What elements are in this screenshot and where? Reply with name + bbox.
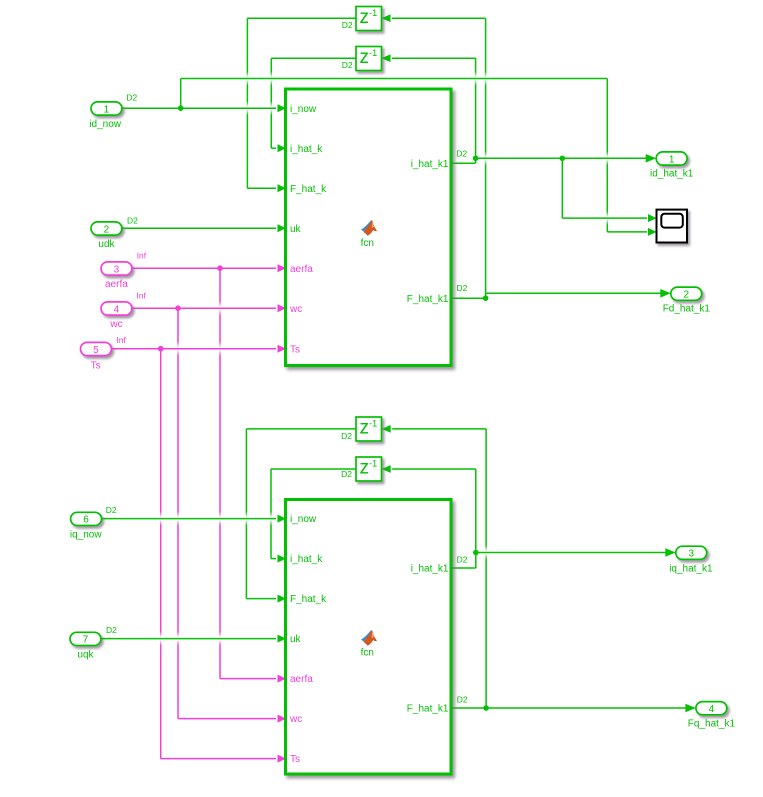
junction i_hat_k1 bottom	[473, 550, 479, 556]
svg-text:aerfa: aerfa	[290, 264, 313, 275]
arrow into i_now block2	[278, 515, 287, 523]
svg-text:D2: D2	[126, 93, 137, 103]
wire z3 out	[246, 428, 356, 430]
svg-text:iq_now: iq_now	[70, 530, 102, 541]
svg-text:i_now: i_now	[290, 104, 317, 115]
arrow into scope input2	[648, 228, 657, 236]
svg-text:Ts: Ts	[290, 754, 300, 765]
svg-text:i_hat_k1: i_hat_k1	[411, 564, 449, 575]
junction F_hat_k1 bottom	[483, 705, 489, 711]
wire id_now to i_now	[122, 107, 276, 109]
svg-text:uqk: uqk	[77, 650, 94, 661]
unit delay z4	[356, 457, 382, 481]
svg-text:i_hat_k: i_hat_k	[290, 144, 323, 155]
svg-text:z: z	[360, 458, 370, 479]
svg-text:-1: -1	[369, 419, 377, 430]
svg-text:Inf: Inf	[116, 335, 126, 345]
wire aerfa vertical	[219, 268, 221, 678]
svg-text:2: 2	[683, 290, 689, 301]
svg-text:id_hat_k1: id_hat_k1	[650, 169, 694, 180]
svg-text:i_hat_k1: i_hat_k1	[411, 159, 449, 170]
wire F_hat_k1 to outport4	[451, 707, 686, 709]
wire z2 to i_hat_k	[271, 147, 276, 149]
wire to scope input2	[607, 231, 647, 233]
svg-text:uk: uk	[290, 224, 302, 235]
inport 7 uqk	[70, 632, 101, 645]
svg-text:iq_hat_k1: iq_hat_k1	[669, 564, 713, 575]
arrow into i_hat_k block2	[278, 555, 287, 563]
junction wc	[175, 305, 181, 311]
wire into z3	[392, 428, 486, 430]
svg-text:Inf: Inf	[137, 250, 147, 260]
scope block	[657, 210, 688, 243]
arrow into F_hat_k block2	[278, 595, 287, 603]
svg-text:5: 5	[93, 345, 99, 356]
wire z3 to F_hat_k block2	[246, 598, 276, 600]
svg-text:wc: wc	[289, 304, 302, 315]
wire i_hat_k1 to z4 vertical	[475, 469, 477, 568]
svg-text:wc: wc	[289, 714, 302, 725]
wire F_hat_k feedback vertical left bottom	[245, 429, 247, 599]
svg-text:aerfa: aerfa	[105, 279, 128, 290]
wire i_hat_k1 to z2 vertical	[475, 58, 477, 163]
arrow into i_now block1	[278, 104, 287, 112]
svg-text:F_hat_k: F_hat_k	[290, 184, 327, 195]
svg-text:4: 4	[114, 304, 120, 315]
junction id_now branch	[178, 105, 184, 111]
svg-text:i_now: i_now	[290, 514, 317, 525]
svg-text:D2: D2	[106, 625, 117, 635]
svg-text:1: 1	[669, 154, 675, 165]
svg-text:D2: D2	[457, 283, 468, 293]
arrow into wc block1	[278, 304, 287, 312]
wire i_hat_k1 exit block1	[451, 162, 476, 164]
svg-text:1: 1	[104, 104, 110, 115]
outport 2 Fd_hat_k1	[671, 287, 702, 300]
wire i_hat_k feedback vertical left top	[270, 58, 272, 148]
wire Ts to block1	[112, 348, 276, 350]
arrow into z1	[382, 14, 391, 22]
wire i_hat_k1 to outport3	[476, 552, 666, 554]
svg-text:Inf: Inf	[136, 290, 146, 300]
svg-text:4: 4	[709, 704, 715, 715]
inport 1 id_now	[91, 102, 122, 115]
svg-text:Fq_hat_k1: Fq_hat_k1	[688, 719, 736, 730]
unit delay z3	[356, 417, 382, 441]
wire i_hat_k1 to scope vertical	[561, 158, 563, 218]
svg-text:D2: D2	[342, 20, 353, 30]
junction F_hat_k1 top	[483, 295, 489, 301]
svg-text:z: z	[360, 47, 370, 68]
svg-text:F_hat_k: F_hat_k	[290, 594, 327, 605]
wire Ts vertical	[160, 349, 162, 759]
arrow into i_hat_k block1	[278, 144, 287, 152]
svg-text:D2: D2	[456, 148, 467, 158]
wire z4 out	[271, 468, 356, 470]
svg-text:D2: D2	[106, 505, 117, 515]
wire i_hat_k feedback vertical left bottom	[270, 469, 272, 559]
svg-text:F_hat_k1: F_hat_k1	[407, 704, 449, 715]
arrow into Ts block1	[278, 345, 287, 353]
junction i_hat_k1 top	[473, 156, 479, 162]
svg-text:-1: -1	[369, 48, 377, 59]
wire aerfa to block1	[132, 267, 276, 269]
svg-text:D2: D2	[457, 554, 468, 564]
arrow into aerfa block1	[278, 264, 287, 272]
svg-text:-1: -1	[369, 8, 377, 19]
svg-text:udk: udk	[98, 239, 115, 250]
svg-text:Ts: Ts	[290, 344, 300, 355]
wire to scope input1	[562, 217, 647, 219]
arrow into outport2	[660, 289, 671, 298]
svg-text:7: 7	[83, 635, 89, 646]
svg-text:F_hat_k1: F_hat_k1	[407, 294, 449, 305]
arrow into z4	[382, 465, 391, 473]
wire uqk to uk	[101, 638, 276, 640]
svg-text:Ts: Ts	[91, 361, 101, 372]
arrow into aerfa block2	[278, 675, 287, 683]
wire i_hat_k1 to outport1	[476, 157, 646, 159]
inport 4 wc	[101, 302, 132, 315]
svg-text:6: 6	[83, 515, 89, 526]
svg-text:z: z	[360, 418, 370, 439]
arrow into z3	[382, 425, 391, 433]
svg-text:3: 3	[114, 264, 120, 275]
wire into z1	[392, 17, 486, 19]
arrow into outport3	[665, 548, 676, 557]
wire z4 to i_hat_k block2	[271, 558, 276, 560]
inport 5 Ts	[81, 342, 112, 355]
outport 4 Fq_hat_k1	[696, 702, 727, 715]
svg-text:D2: D2	[127, 216, 138, 226]
wire z2 out	[271, 57, 356, 59]
arrow into uk block2	[278, 635, 287, 643]
junction Ts	[158, 346, 164, 352]
wire F_hat_k1 exit block1	[451, 297, 486, 299]
wire iq_now to i_now	[102, 518, 277, 520]
wire id_now branch up to scope path	[180, 79, 182, 109]
svg-text:i_hat_k: i_hat_k	[290, 554, 323, 565]
wire into z2	[392, 57, 476, 59]
wire z1 to F_hat_k	[247, 187, 276, 189]
svg-text:D2: D2	[342, 60, 353, 70]
wire udk to uk	[122, 227, 276, 229]
svg-text:-1: -1	[369, 459, 377, 470]
arrow into scope input1	[648, 214, 657, 222]
svg-text:fcn: fcn	[361, 238, 374, 249]
svg-text:uk: uk	[290, 634, 302, 645]
wire into z4	[392, 468, 476, 470]
svg-text:fcn: fcn	[361, 648, 374, 659]
svg-text:wc: wc	[109, 319, 122, 330]
wire i_hat_k1 exit block2	[451, 567, 476, 569]
unit delay z2	[356, 47, 382, 71]
junction scope branch	[560, 156, 566, 162]
svg-text:aerfa: aerfa	[290, 674, 313, 685]
svg-text:z: z	[360, 7, 370, 28]
junction aerfa	[217, 265, 223, 271]
MATLAB Function block 2	[286, 500, 452, 775]
wire wc vertical	[177, 308, 179, 718]
wire F_hat_k feedback vertical left top	[246, 18, 248, 188]
svg-text:2: 2	[104, 224, 110, 235]
svg-text:Fd_hat_k1: Fd_hat_k1	[663, 304, 711, 315]
outport 1 id_hat_k1	[656, 152, 687, 165]
inport 3 aerfa	[101, 262, 132, 275]
wire wc to block1	[132, 307, 276, 309]
arrow into wc block2	[278, 715, 287, 723]
arrow into F_hat_k block1	[278, 184, 287, 192]
wire F_hat_k1 to z1 vertical	[485, 18, 487, 298]
arrow into z2	[382, 54, 391, 62]
wire id_now to scope vertical	[606, 79, 608, 232]
unit delay z1	[356, 7, 382, 31]
arrow into Ts block2	[278, 755, 287, 763]
inport 2 udk	[91, 222, 122, 235]
svg-text:id_now: id_now	[89, 119, 121, 130]
svg-text:D2: D2	[341, 431, 352, 441]
wire aerfa to block2	[220, 678, 276, 680]
wire F_hat_k1 to outport2	[486, 292, 661, 294]
wire z1 out	[247, 17, 356, 19]
line crossing gaps	[245, 72, 250, 86]
outport 3 iq_hat_k1	[676, 546, 707, 559]
svg-text:D2: D2	[457, 694, 468, 704]
arrow into outport1	[646, 154, 657, 163]
MATLAB Function block 1	[286, 89, 452, 366]
arrow into outport4	[685, 704, 696, 713]
inport 6 iq_now	[71, 512, 102, 525]
svg-text:3: 3	[688, 549, 694, 560]
wire wc to block2	[178, 718, 276, 720]
wire id_now branch to scope top	[181, 78, 608, 80]
svg-text:D2: D2	[341, 469, 352, 479]
wire Ts to block2	[161, 758, 276, 760]
arrow into uk block1	[278, 224, 287, 232]
wire F_hat_k1 to z3 vertical	[485, 429, 487, 708]
